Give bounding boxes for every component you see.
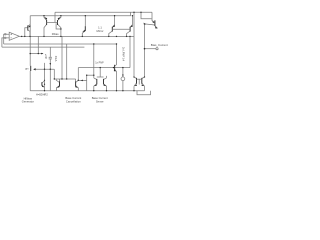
svg-text:Cancellation: Cancellation — [66, 100, 81, 104]
svg-text:gm: gm — [25, 68, 28, 70]
svg-text:Rbias: Rbias — [52, 32, 60, 36]
svg-text:a,: a, — [45, 54, 47, 56]
svg-text:H=BDHR2: H=BDHR2 — [36, 94, 48, 97]
svg-text:Mirror: Mirror — [96, 29, 103, 33]
svg-text:20uA: 20uA — [54, 56, 57, 62]
svg-text:Sense: Sense — [96, 100, 104, 104]
svg-text:Bias_Current: Bias_Current — [151, 43, 168, 47]
svg-text:IB: IB — [45, 58, 48, 60]
svg-text:Generator: Generator — [22, 99, 34, 103]
svg-text:2x LPNP 1:4: 2x LPNP 1:4 — [121, 47, 124, 62]
svg-text:1x PNP: 1x PNP — [95, 62, 104, 65]
